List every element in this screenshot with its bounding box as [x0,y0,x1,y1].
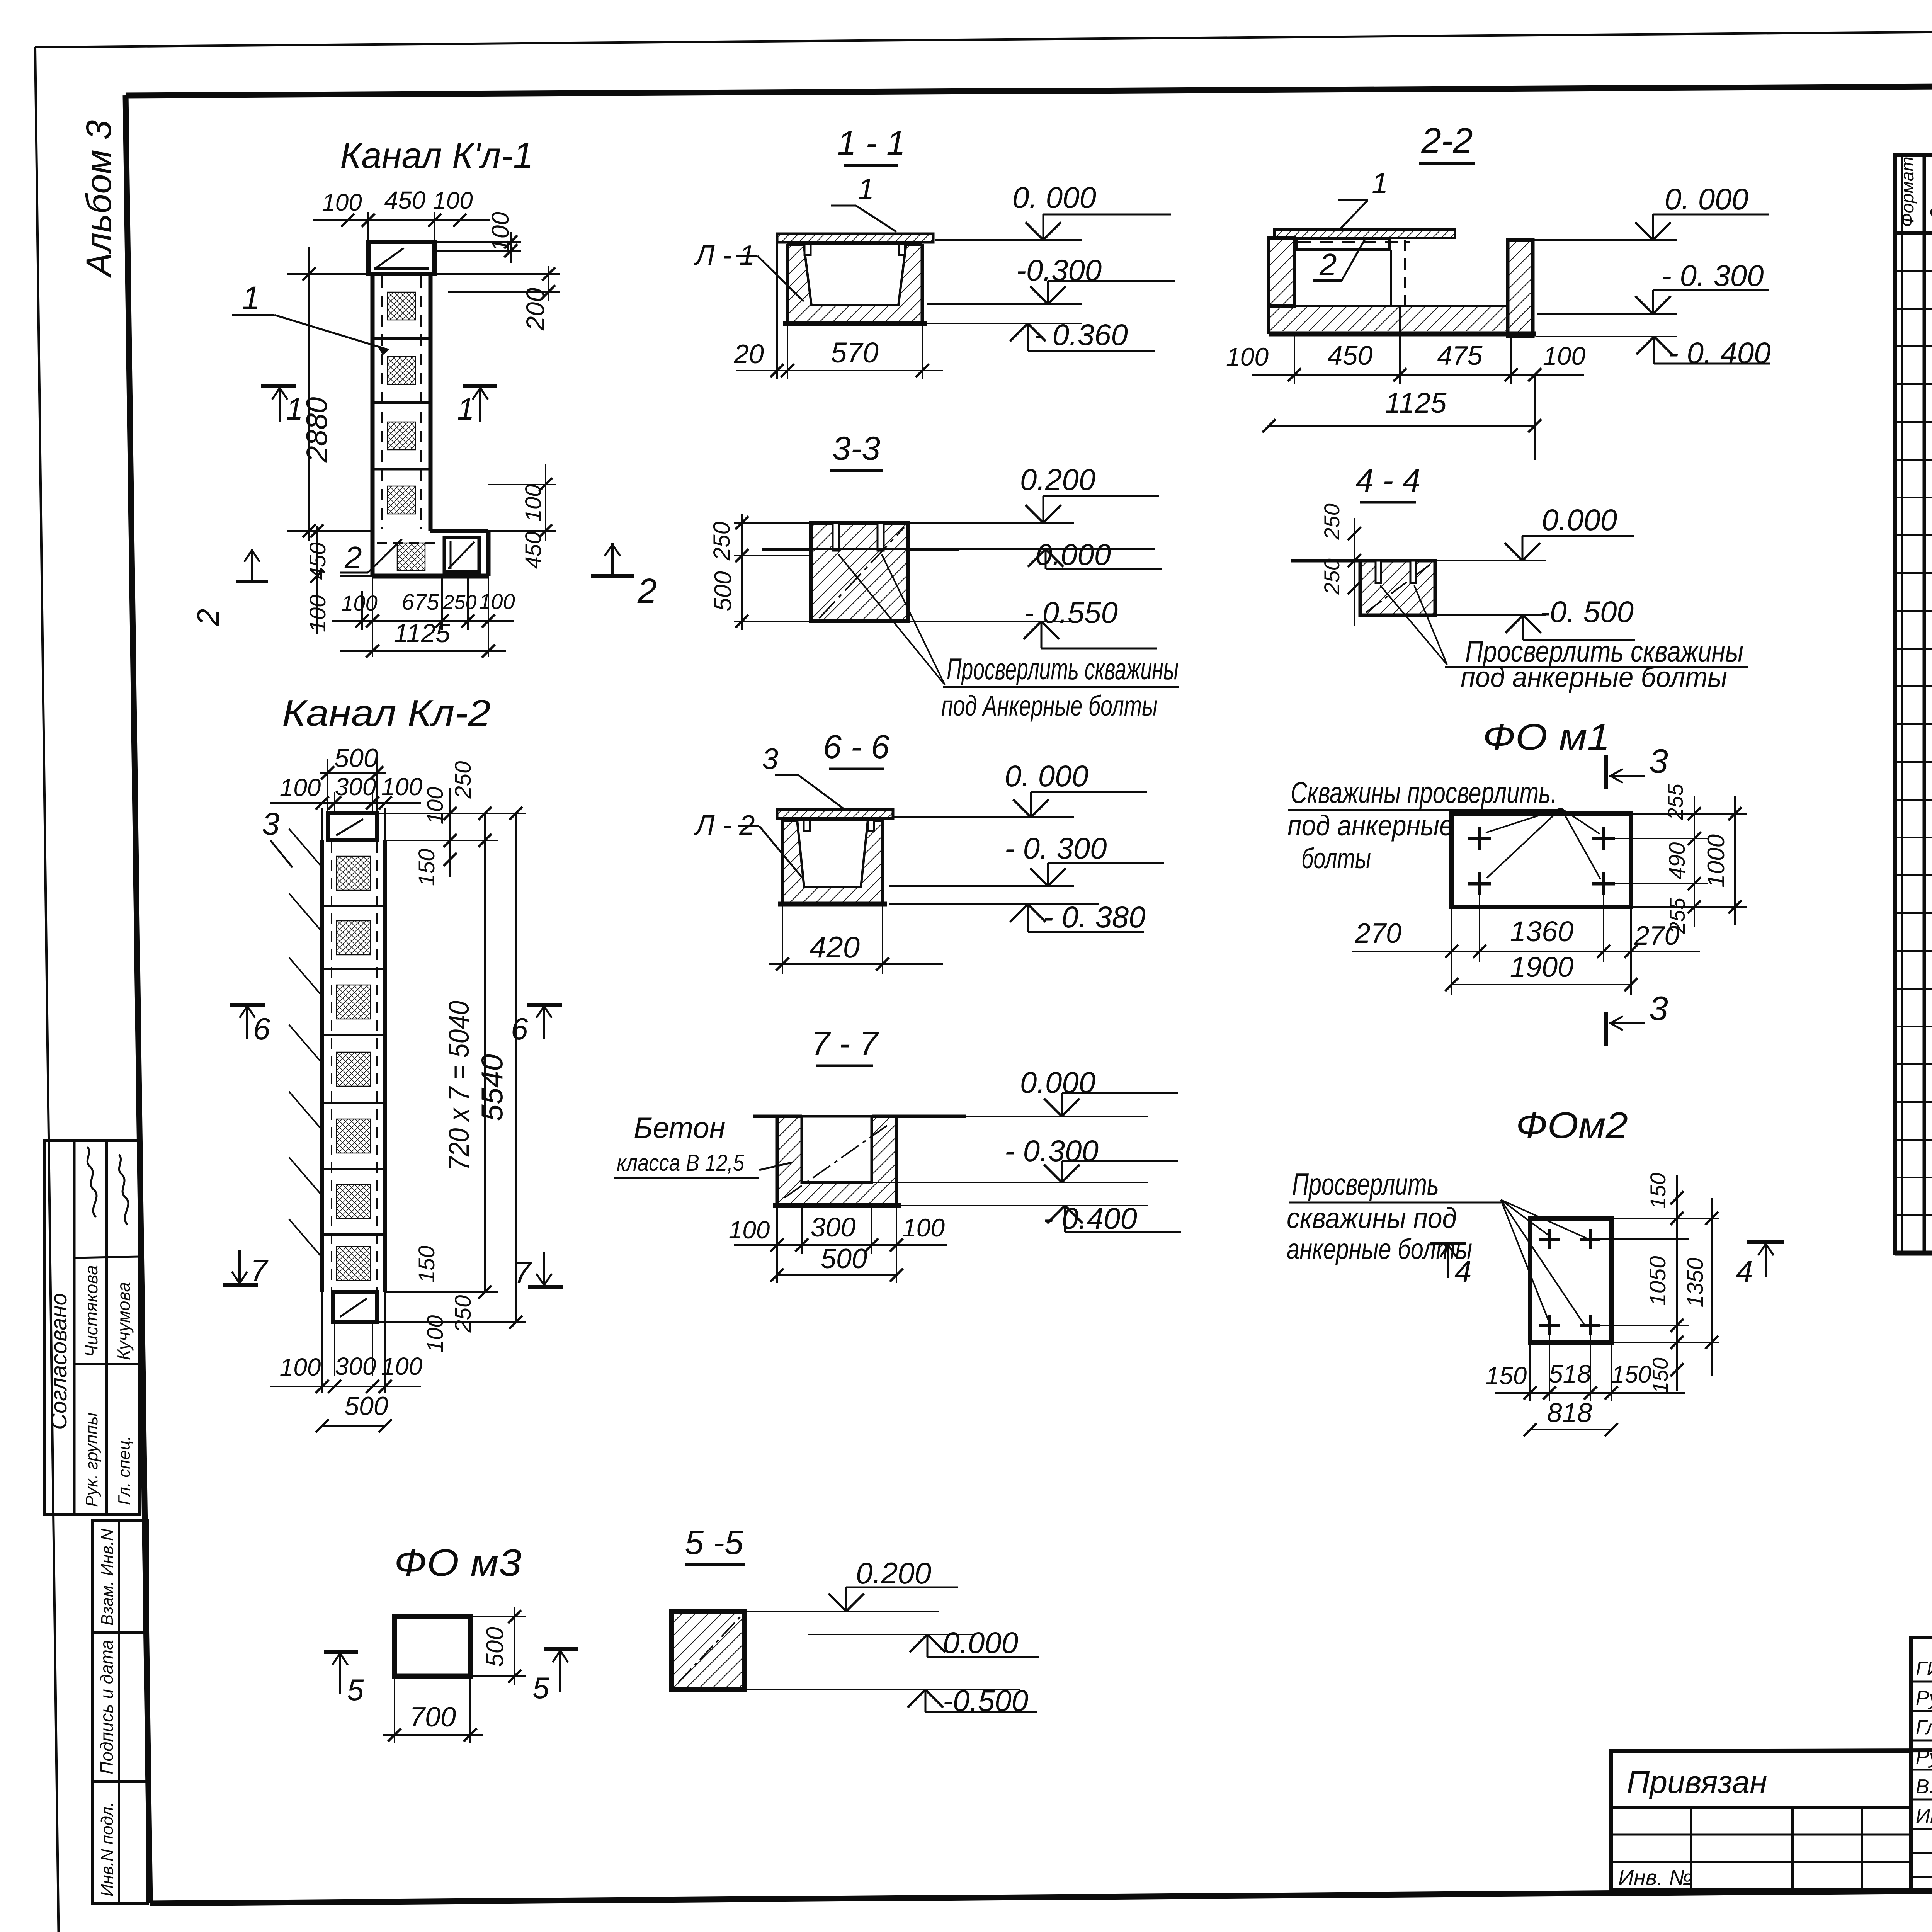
svg-text:0. 000: 0. 000 [1012,180,1096,214]
svg-text:2-2: 2-2 [1421,121,1473,160]
svg-text:1360: 1360 [1510,915,1574,947]
svg-text:300: 300 [811,1212,856,1242]
svg-text:500: 500 [344,1391,388,1421]
svg-text:20: 20 [733,339,764,369]
svg-text:Скважины просверлить.: Скважины просверлить. [1291,776,1557,810]
svg-text:-0. 500: -0. 500 [1540,595,1634,629]
svg-text:скважины под: скважины под [1287,1202,1457,1234]
svg-text:болты: болты [1301,842,1371,874]
svg-text:518: 518 [1549,1359,1591,1388]
svg-text:1 - 1: 1 - 1 [837,124,905,162]
svg-text:7: 7 [250,1253,269,1287]
svg-text:490: 490 [1665,842,1690,880]
svg-text:Рук. бр.: Рук. бр. [1916,1687,1932,1709]
svg-text:Привязан: Привязан [1627,1765,1767,1800]
svg-text:6 - 6: 6 - 6 [823,728,889,765]
svg-text:2: 2 [637,572,657,611]
svg-text:6: 6 [253,1012,270,1046]
svg-text:1: 1 [858,173,874,206]
svg-text:- 0. 400: - 0. 400 [1668,336,1771,370]
svg-text:100: 100 [280,774,321,801]
svg-text:Зона: Зона [1927,178,1932,219]
svg-text:В. инж.: В. инж. [1916,1776,1932,1798]
svg-text:2880: 2880 [301,397,333,463]
svg-text:Бетон: Бетон [634,1112,725,1145]
svg-text:1125: 1125 [394,619,450,648]
svg-text:Просверлить: Просверлить [1292,1167,1439,1201]
svg-text:0.000: 0.000 [1542,503,1617,537]
svg-text:1: 1 [286,392,303,426]
svg-text:Канал Кл-2: Канал Кл-2 [282,692,491,734]
svg-text:1125: 1125 [1385,387,1447,419]
svg-text:100: 100 [433,187,473,214]
svg-text:7: 7 [514,1255,532,1289]
svg-text:Рук. группы: Рук. группы [82,1413,101,1507]
svg-text:0. 000: 0. 000 [1665,182,1748,216]
svg-text:250: 250 [443,591,477,614]
svg-text:Инв. №: Инв. № [1618,1865,1692,1889]
svg-text:под анкерные: под анкерные [1287,810,1454,842]
svg-text:100: 100 [280,1353,321,1381]
svg-text:250: 250 [1320,558,1344,595]
svg-text:Гл.спец.: Гл.спец. [1916,1716,1932,1739]
svg-text:255: 255 [1665,897,1689,934]
svg-text:Инж.: Инж. [1916,1805,1932,1827]
svg-text:450: 450 [1328,340,1373,371]
svg-text:6: 6 [511,1012,528,1046]
svg-text:200: 200 [521,288,549,331]
svg-text:- 0.300: - 0.300 [1005,1134,1099,1168]
svg-text:500: 500 [482,1627,509,1667]
svg-text:Формат: Формат [1897,156,1917,227]
svg-text:1050: 1050 [1645,1256,1670,1306]
svg-text:2: 2 [1319,247,1337,282]
svg-text:0.000: 0.000 [1020,1065,1095,1099]
svg-text:255: 255 [1663,783,1687,820]
svg-text:300: 300 [335,773,376,801]
svg-text:- 0. 300: - 0. 300 [1662,259,1764,293]
svg-text:420: 420 [810,930,860,964]
svg-text:Инв.N подл.: Инв.N подл. [98,1802,117,1896]
svg-text:3: 3 [1649,989,1668,1027]
svg-text:100: 100 [423,1315,448,1353]
svg-text:0.200: 0.200 [856,1556,931,1590]
svg-text:2: 2 [344,540,362,575]
svg-text:100: 100 [521,485,546,522]
svg-text:Гл. спец.: Гл. спец. [115,1436,134,1505]
svg-text:500: 500 [821,1243,867,1274]
svg-text:100: 100 [1543,342,1585,370]
svg-text:450: 450 [305,543,330,580]
svg-text:0. 000: 0. 000 [1005,759,1088,793]
svg-text:- 0.550: - 0.550 [1024,595,1118,629]
svg-text:300: 300 [335,1352,376,1380]
svg-text:5540: 5540 [475,1054,509,1121]
svg-text:под анкерные болты: под анкерные болты [1461,661,1727,693]
svg-text:4 - 4: 4 - 4 [1355,462,1420,498]
svg-text:- 0. 300: - 0. 300 [1005,831,1107,865]
svg-text:450: 450 [521,532,546,569]
svg-text:ФОм2: ФОм2 [1516,1105,1628,1146]
svg-text:100: 100 [423,787,448,825]
svg-text:3: 3 [762,743,778,776]
svg-text:5 -5: 5 -5 [685,1523,744,1561]
svg-text:1900: 1900 [1510,951,1574,983]
svg-text:- 0. 380: - 0. 380 [1043,900,1146,934]
svg-text:0.000: 0.000 [943,1626,1018,1660]
svg-text:3-3: 3-3 [832,430,880,467]
svg-text:100: 100 [305,595,330,633]
svg-text:100: 100 [322,189,362,216]
svg-text:7 - 7: 7 - 7 [811,1025,879,1062]
svg-text:1: 1 [242,280,260,316]
svg-text:250: 250 [451,1295,476,1333]
svg-text:Чистякова: Чистякова [81,1265,101,1357]
svg-text:ФО м3: ФО м3 [394,1541,522,1584]
svg-text:Подпись и дата: Подпись и дата [97,1640,117,1774]
svg-text:5: 5 [347,1673,364,1707]
svg-text:0.200: 0.200 [1020,463,1095,497]
svg-text:450: 450 [384,186,426,214]
svg-text:150: 150 [1611,1361,1651,1388]
svg-text:100: 100 [479,589,515,614]
svg-text:под Анкерные болты: под Анкерные болты [941,690,1158,722]
svg-text:100: 100 [902,1213,945,1242]
svg-text:3: 3 [262,806,280,842]
svg-text:класса В 12,5: класса В 12,5 [617,1150,745,1176]
svg-text:Кучумова: Кучумова [114,1282,134,1360]
svg-text:720 х 7 = 5040: 720 х 7 = 5040 [443,1001,475,1171]
svg-text:570: 570 [831,337,878,369]
svg-text:Просверлить скважины: Просверлить скважины [947,652,1179,686]
svg-text:500: 500 [334,743,378,773]
svg-text:ФО м1: ФО м1 [1483,716,1610,758]
svg-text:150: 150 [1648,1357,1672,1393]
svg-text:Согласовано: Согласовано [46,1293,71,1430]
svg-text:Канал К'л-1: Канал К'л-1 [340,135,533,176]
svg-text:150: 150 [414,1246,439,1283]
svg-text:700: 700 [410,1702,456,1733]
svg-text:1: 1 [457,392,474,426]
svg-text:100: 100 [341,591,377,615]
svg-text:100: 100 [729,1216,770,1244]
svg-text:1: 1 [1372,167,1388,200]
svg-text:100: 100 [381,1352,423,1380]
svg-text:ГИП: ГИП [1916,1658,1932,1680]
svg-text:Взам. Инв.N: Взам. Инв.N [98,1529,117,1626]
svg-text:100: 100 [1226,342,1269,371]
svg-text:150: 150 [1486,1362,1527,1389]
svg-text:5: 5 [532,1671,549,1705]
svg-text:0.000: 0.000 [1036,537,1111,571]
svg-text:1350: 1350 [1683,1257,1708,1307]
svg-text:- 0.360: - 0.360 [1034,318,1128,352]
svg-text:-0.300: -0.300 [1016,253,1102,287]
svg-text:250: 250 [451,761,476,799]
svg-text:150: 150 [1646,1173,1670,1209]
svg-text:100: 100 [381,773,423,801]
svg-text:250: 250 [1320,503,1344,540]
svg-text:500: 500 [710,571,736,611]
svg-text:4: 4 [1454,1254,1472,1289]
svg-text:150: 150 [414,849,439,886]
svg-text:Альбом 3: Альбом 3 [79,120,119,278]
svg-text:4: 4 [1736,1254,1753,1289]
svg-text:475: 475 [1437,340,1483,371]
svg-text:100: 100 [487,212,514,252]
svg-text:675: 675 [402,590,440,615]
svg-text:3: 3 [1649,742,1668,780]
svg-text:818: 818 [1547,1398,1592,1428]
svg-text:2: 2 [191,609,225,627]
svg-text:1000: 1000 [1703,834,1730,888]
svg-text:270: 270 [1355,918,1401,949]
svg-text:250: 250 [709,522,735,561]
svg-text:- 0.400: - 0.400 [1043,1201,1137,1235]
svg-text:-0.500: -0.500 [943,1684,1028,1718]
